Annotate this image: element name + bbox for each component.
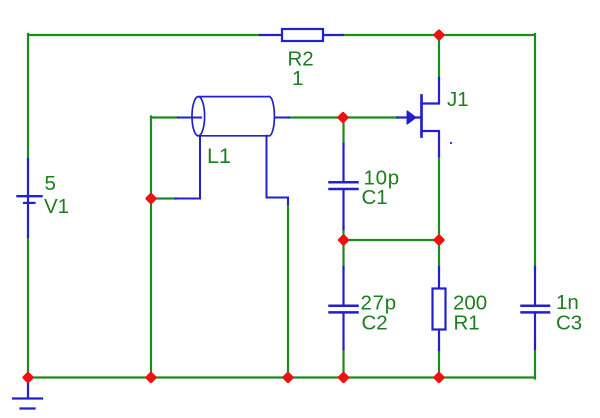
wire gate node down to C1 <box>342 118 344 146</box>
junction node: bottom rail L1 loop <box>282 371 295 384</box>
inductor L1 <box>175 97 289 204</box>
svg-text:L1: L1 <box>207 144 231 168</box>
wire L1 left pin branch horizontal <box>151 116 178 118</box>
wire left rail (top corner down to V1 top) <box>27 34 29 159</box>
wire node A stub (L1 loop left to node) <box>151 197 176 199</box>
transistor J1 (n-JFET) <box>398 78 440 156</box>
wire bottom ground rail <box>28 376 535 378</box>
svg-text:C3: C3 <box>556 312 582 335</box>
voltage source V1 <box>18 159 42 237</box>
junction node: R1 top / source <box>433 234 446 247</box>
svg-text:5: 5 <box>45 172 56 195</box>
wire R1 bottom to bottom rail <box>438 350 440 378</box>
wire C2 top lead green <box>342 240 344 268</box>
wire top rail right segment (R2 right to node and top-right corner) <box>343 34 535 36</box>
capacitor C1 <box>330 144 358 229</box>
wire V1 bottom to ground node <box>27 237 29 378</box>
wire J1 source down to R1 node <box>438 155 440 240</box>
wire right rail bottom (C3 to bottom-right corner) <box>534 349 536 379</box>
J1 origin dot <box>450 142 452 144</box>
junction node: bottom rail C2 <box>337 371 350 384</box>
junction node: ground left <box>22 371 35 384</box>
svg-text:C2: C2 <box>362 312 388 335</box>
junction node: drain / top rail <box>433 29 446 42</box>
svg-text:1: 1 <box>292 67 303 90</box>
wire L1 right loop descender to bottom rail <box>287 203 289 378</box>
capacitor C3 <box>522 267 550 349</box>
wire C2 bottom to bottom rail <box>342 349 344 378</box>
wire drain node down to J1 drain <box>438 35 440 78</box>
wire top rail left segment (V1+ to R2 left) <box>28 34 260 36</box>
junction node: gate / L1 / C1 <box>337 111 350 124</box>
transistor J1 gate arrow <box>407 111 415 124</box>
junction node: bottom rail L1 branch <box>145 371 158 384</box>
wire mid rail (C2 top node to R1 top node) <box>343 239 439 241</box>
capacitor C2 <box>330 267 358 349</box>
svg-text:V1: V1 <box>44 195 69 218</box>
wire L1 branch vertical (down to bottom rail) <box>150 117 152 378</box>
wire right rail top (top-right corner down to C3) <box>534 34 536 268</box>
wire R1 top green <box>438 240 440 267</box>
svg-text:J1: J1 <box>447 88 469 111</box>
junction node: L1 left pin <box>145 192 158 205</box>
resistor R2 <box>260 29 343 41</box>
wire gate node to J1 gate <box>343 116 398 118</box>
wire C1 bottom to mid node <box>342 228 344 240</box>
ground <box>13 382 42 409</box>
resistor R1 <box>433 267 446 350</box>
junction node: C1/C2 mid <box>337 234 350 247</box>
svg-text:R1: R1 <box>454 312 480 335</box>
junction node: bottom rail R1 <box>433 371 446 384</box>
wire L1 right pin to gate node <box>288 116 343 118</box>
svg-text:C1: C1 <box>362 186 388 209</box>
